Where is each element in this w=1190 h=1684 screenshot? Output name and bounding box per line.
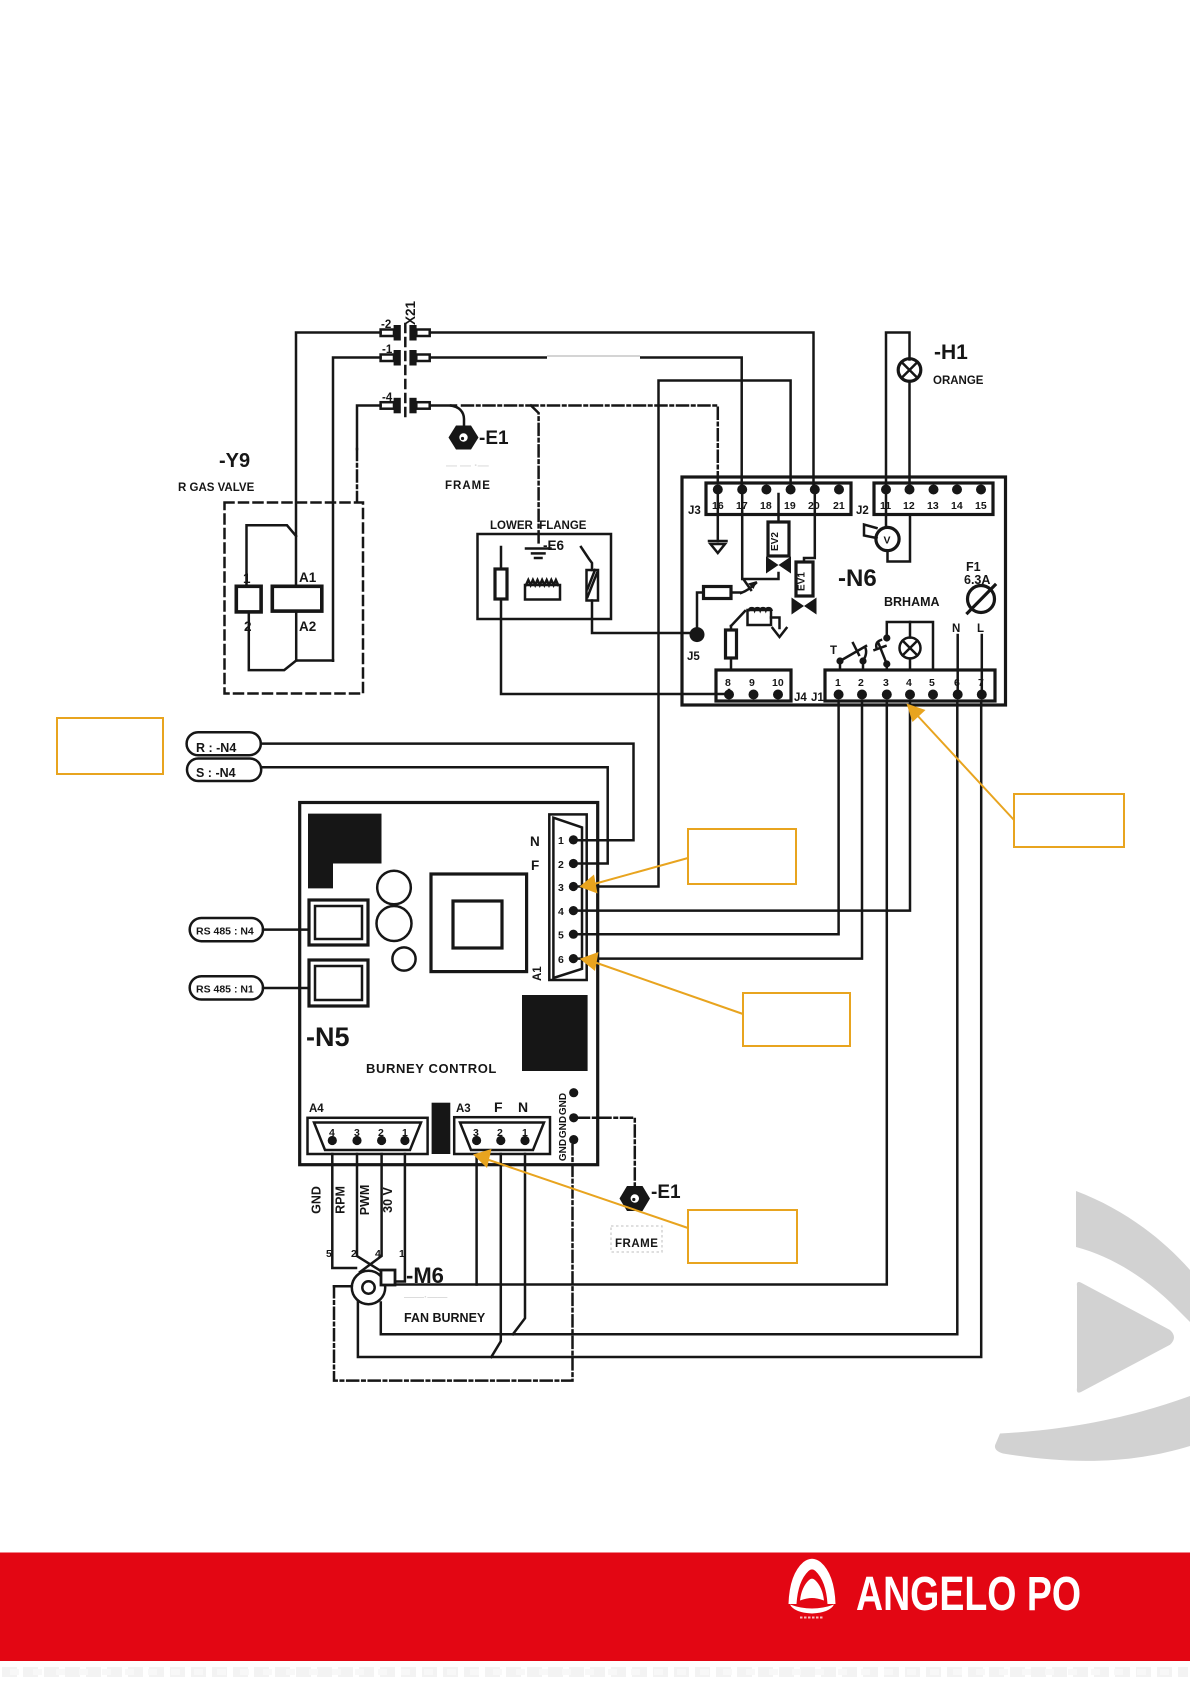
wire X21-1 left to Y9 <box>333 358 381 661</box>
svg-text:— — ·—: — — ·— <box>446 460 489 472</box>
wire L to J1 pin7 <box>981 635 984 690</box>
connector X21 pin 2 <box>381 319 430 341</box>
wire tag RS485:N4 <box>190 918 309 941</box>
svg-text:LOWER FLANGE: LOWER FLANGE <box>490 520 587 532</box>
wire EV2 to J3 pin17 <box>742 494 778 579</box>
connector A1 <box>549 814 586 980</box>
switch at J1 pin3 <box>875 634 891 670</box>
svg-text:EV1: EV1 <box>797 572 808 591</box>
footer red bar <box>0 1553 1190 1662</box>
wire S to A1 pin2 <box>261 767 608 863</box>
svg-text:EV2: EV2 <box>770 532 781 551</box>
valve EV2 bowtie <box>766 557 791 574</box>
ground bolt E1 (lower) <box>620 1186 651 1211</box>
svg-text:V: V <box>884 535 891 547</box>
callout box E with arrow to A3 <box>473 1149 797 1263</box>
relay coil on N6 <box>748 608 772 625</box>
svg-text:RS 485 : N4: RS 485 : N4 <box>196 926 254 938</box>
thermostat T5 <box>830 643 867 670</box>
svg-text:3: 3 <box>354 1127 360 1139</box>
connector X21 pin 1 <box>381 344 430 366</box>
svg-text:21: 21 <box>833 500 845 512</box>
svg-text:-2: -2 <box>381 319 391 331</box>
svg-text:R GAS VALVE: R GAS VALVE <box>178 482 255 494</box>
svg-text:3: 3 <box>883 677 889 689</box>
wire E6 left element to J4 pin 8 <box>501 599 729 694</box>
svg-text:-4: -4 <box>382 392 393 404</box>
svg-text:2: 2 <box>558 859 564 871</box>
callout box D with arrow to A1 pin6 <box>580 952 850 1046</box>
resistor on N6 <box>704 587 732 599</box>
resistor vertical on N6 <box>726 626 737 670</box>
svg-text:1: 1 <box>402 1127 408 1139</box>
wire tag R:-N4 <box>187 732 261 755</box>
logo angelo po icon arch <box>789 1559 836 1604</box>
svg-text:1: 1 <box>243 571 251 586</box>
svg-text:5: 5 <box>929 677 935 689</box>
logo angelo po icon smile <box>790 1605 834 1614</box>
svg-text:FRAME: FRAME <box>445 480 491 492</box>
capacitor circles on N5 <box>377 871 411 905</box>
wire fan box to J1 pin3 <box>395 703 887 1285</box>
wire J3 pin19 to A1 pin3 <box>575 381 791 887</box>
wire R to A1 pin1 <box>261 744 634 841</box>
wire motor to J1 pin7 <box>358 703 981 1357</box>
wire labels under A4 <box>310 1185 396 1216</box>
svg-text:A3: A3 <box>456 1103 471 1115</box>
svg-text:GND: GND <box>558 1093 569 1115</box>
connector X21 pin 4 <box>381 392 430 413</box>
svg-text:14: 14 <box>951 500 963 512</box>
svg-text:J5: J5 <box>687 651 700 663</box>
svg-text:F: F <box>494 1099 503 1115</box>
svg-text:7: 7 <box>978 677 984 689</box>
svg-text:9: 9 <box>749 677 755 689</box>
watermark logo swoosh upper band <box>1076 1191 1190 1322</box>
svg-text:S : -N4: S : -N4 <box>196 766 236 780</box>
erased label patch on X21-1 wire <box>547 348 640 365</box>
svg-text:-E6: -E6 <box>543 538 565 553</box>
chip U1 on N5 <box>431 874 527 972</box>
svg-text:R : -N4: R : -N4 <box>196 741 236 755</box>
connector J1 <box>825 670 995 701</box>
svg-text:N: N <box>530 834 540 849</box>
svg-text:4: 4 <box>906 677 912 689</box>
connector A4 <box>308 1118 428 1154</box>
svg-text:N: N <box>952 623 960 635</box>
ground chevron <box>773 628 787 637</box>
svg-text:A4: A4 <box>309 1103 324 1115</box>
svg-text:15: 15 <box>975 500 987 512</box>
contact arm diagonal <box>731 611 745 626</box>
wire J1 pin2 to A1 pin6 <box>575 703 862 959</box>
svg-text:GND: GND <box>558 1116 569 1138</box>
svg-text:10: 10 <box>772 677 784 689</box>
relay contact arm <box>731 580 757 593</box>
wire A3 pin1 N down <box>513 1154 525 1334</box>
svg-text:4: 4 <box>558 906 564 918</box>
svg-text:-E1: -E1 <box>651 1182 681 1203</box>
GND pads on N5 <box>558 1088 578 1161</box>
board N6 outline <box>682 477 1006 705</box>
wire numbers at fan <box>326 1248 405 1260</box>
svg-text:1: 1 <box>399 1248 405 1260</box>
svg-text:RS 485 : N1: RS 485 : N1 <box>196 984 254 996</box>
contact block Y9 pins 1-2 <box>236 586 261 612</box>
svg-text:X21: X21 <box>403 300 418 325</box>
wire A3 pin3 down <box>475 1154 478 1285</box>
black block between A4 A3 <box>432 1103 451 1154</box>
svg-text:13: 13 <box>927 500 939 512</box>
svg-text:J3: J3 <box>688 505 701 517</box>
connector J2 <box>874 483 993 515</box>
svg-text:L: L <box>977 623 984 635</box>
connector A3 <box>454 1117 550 1154</box>
wire A4 pin4 down <box>332 1154 356 1268</box>
svg-text:-H1: -H1 <box>934 341 968 364</box>
svg-text:2: 2 <box>351 1248 357 1260</box>
watermark logo lower arc <box>995 1396 1190 1461</box>
solenoid EV2 <box>768 494 789 556</box>
wire coil to ground <box>771 618 780 629</box>
valve EV1 bowtie <box>792 598 817 615</box>
svg-text:19: 19 <box>784 500 796 512</box>
wire Y9 bottom loop <box>249 612 333 670</box>
wire A4 pin3 down <box>357 1154 384 1273</box>
igniter element in E6 <box>525 580 560 600</box>
wire tap to E1 frame bolt <box>451 406 464 426</box>
sensor element right in E6 <box>581 547 598 601</box>
svg-text:3: 3 <box>558 882 564 894</box>
wire X21-1 right to J3 pin 17 <box>430 358 742 488</box>
wire GND dash-dot to E1 lower <box>578 1118 635 1185</box>
svg-text:-Y9: -Y9 <box>219 450 250 472</box>
wire tag RS485:N1 <box>190 976 309 999</box>
callout box B with arrow to J1 pin4 <box>907 704 1125 848</box>
svg-text:FAN BURNEY: FAN BURNEY <box>404 1311 486 1325</box>
svg-text:A2: A2 <box>299 619 316 634</box>
wire Y9 A2 drop <box>295 611 298 660</box>
svg-text:1: 1 <box>835 677 841 689</box>
svg-text:1: 1 <box>558 835 564 847</box>
wire X21-2 right to J3 pin 20 <box>430 333 814 488</box>
svg-text:FRAME: FRAME <box>615 1238 658 1250</box>
svg-text:GND: GND <box>310 1186 324 1214</box>
svg-text:J1: J1 <box>811 692 824 704</box>
flange box E6 <box>478 534 612 619</box>
svg-text:1: 1 <box>522 1127 528 1139</box>
svg-text:8: 8 <box>725 677 731 689</box>
svg-text:-N5: -N5 <box>306 1022 350 1052</box>
wire J1 pin1 to A1 pin5 <box>575 703 839 934</box>
svg-text:N: N <box>518 1099 528 1115</box>
svg-text:-N6: -N6 <box>838 565 877 592</box>
svg-text:6: 6 <box>558 954 564 966</box>
wire X21-4 right solid stub <box>430 404 456 407</box>
black corner block on N5 <box>308 814 382 889</box>
wire Y9 coil branch <box>247 525 297 586</box>
wire N to J1 pin6 <box>956 635 959 690</box>
ground under J3 pin16 <box>709 494 727 553</box>
svg-text:J4: J4 <box>794 692 807 704</box>
connector J3 <box>706 483 851 515</box>
svg-text:J2: J2 <box>856 505 869 517</box>
callout box A <box>57 718 163 774</box>
svg-text:A1: A1 <box>299 570 317 585</box>
svg-text:2: 2 <box>858 677 864 689</box>
wire J5 to resistor <box>697 593 704 629</box>
svg-text:T: T <box>830 645 837 657</box>
svg-text:F: F <box>531 858 539 873</box>
svg-text:ORANGE: ORANGE <box>933 375 984 387</box>
svg-text:30 V: 30 V <box>381 1186 395 1212</box>
wire link pins 3-4-5 <box>887 622 933 670</box>
connector RS485 N4 socket <box>309 900 368 945</box>
lamp at J1 pin4 <box>900 622 921 670</box>
wire A4 pin2 down <box>360 1154 382 1272</box>
wire tag S:-N4 <box>187 759 261 782</box>
logo angelo po icon small text <box>800 1617 824 1619</box>
svg-text:18: 18 <box>760 500 772 512</box>
wire motor to J1 pin6 <box>381 703 958 1334</box>
heater element left in E6 <box>495 547 507 599</box>
lamp H1 loop wires <box>886 333 910 485</box>
coil block Y9 A1-A2 <box>272 586 322 611</box>
callout box C with arrow to A1 pin3 <box>580 829 797 894</box>
branch dash-dot to E6 ground <box>531 406 539 546</box>
connector X21 dashed symmetry line <box>404 324 407 416</box>
relay Y9 dashed enclosure <box>225 503 364 694</box>
connector RS485 N1 socket <box>309 960 368 1006</box>
erased remnant box lower FRAME <box>611 1226 662 1252</box>
wire X21-4 left screen to Y9 box <box>357 406 381 450</box>
svg-text:——·——: ——·—— <box>404 1292 447 1303</box>
svg-text:F1: F1 <box>966 560 981 574</box>
svg-text:12: 12 <box>903 500 915 512</box>
svg-text:ANGELO PO: ANGELO PO <box>856 1568 1081 1621</box>
fan motor V on N6 <box>864 494 910 562</box>
svg-text:GND: GND <box>558 1139 569 1161</box>
svg-text:A1: A1 <box>532 966 544 981</box>
fuse F1 6.3A <box>964 560 995 613</box>
wire J1 pin4 to A1 pin4 <box>575 703 910 911</box>
wire A3 pin2 F down <box>491 1154 501 1357</box>
logo angelo po icon wedge <box>800 1579 824 1601</box>
svg-text:BURNEY CONTROL: BURNEY CONTROL <box>366 1061 497 1076</box>
footer scan artifact strip <box>2 1667 1188 1677</box>
svg-text:2: 2 <box>497 1127 503 1139</box>
svg-text:RPM: RPM <box>334 1186 348 1214</box>
svg-text:5: 5 <box>326 1248 332 1260</box>
junction J5 <box>690 627 705 642</box>
black module on N5 <box>522 995 588 1071</box>
svg-text:4: 4 <box>329 1127 335 1139</box>
svg-text:2: 2 <box>378 1127 384 1139</box>
svg-text:-E1: -E1 <box>479 428 509 449</box>
wire X21-2 left to Y9 <box>296 333 381 587</box>
wire motor left to frame screen <box>334 1285 352 1288</box>
watermark logo wedge triangle <box>1077 1282 1174 1393</box>
svg-text:6.3A: 6.3A <box>964 573 990 587</box>
board N5 outline <box>300 803 598 1165</box>
erased BURNER patch at M6 <box>396 1288 487 1325</box>
svg-text:4: 4 <box>375 1248 381 1260</box>
svg-text:-1: -1 <box>382 344 393 356</box>
wire E6 sensor to J5 <box>592 601 690 634</box>
svg-text:-M6: -M6 <box>406 1263 444 1288</box>
wire X21-4 dash-dot screen to J3 pin 16 <box>462 406 718 487</box>
svg-text:BRHAMA: BRHAMA <box>884 595 940 609</box>
svg-text:5: 5 <box>558 930 564 942</box>
lamp H1 <box>898 359 921 382</box>
connector J4 <box>716 670 791 701</box>
fan motor M6 <box>352 1270 395 1304</box>
wire A4 pin1 down <box>395 1154 405 1282</box>
screen dash-dot motor to N5 GND <box>334 1145 573 1381</box>
svg-text:3: 3 <box>473 1127 479 1139</box>
ground bolt E1 (upper) <box>449 426 479 450</box>
ground symbol E6 <box>526 549 551 559</box>
svg-text:PWM: PWM <box>358 1185 372 1216</box>
svg-text:6: 6 <box>954 677 960 689</box>
solenoid EV1 <box>796 494 815 596</box>
